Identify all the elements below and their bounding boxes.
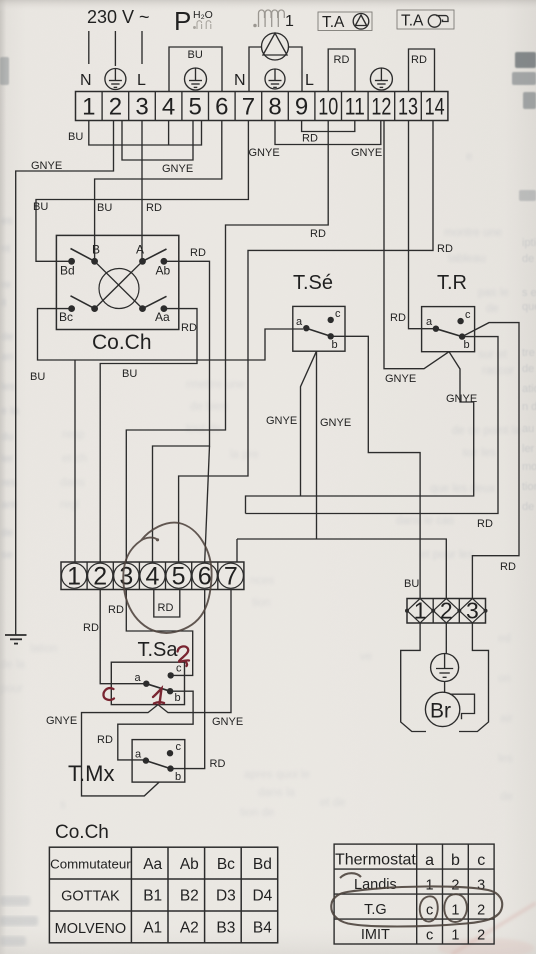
wire BU Co.Ch Aa to strip X2 terminal 2 (100, 309, 197, 562)
terminal strip X1 terminals 1-14 (76, 92, 448, 121)
thermostat T.Se (293, 306, 345, 351)
wire 230V L down to terminal 3 (141, 31, 143, 64)
wire GNYE terminal 12 to T.R case leg (384, 121, 449, 369)
earth symbol above terminal 2 (105, 69, 126, 90)
value label GNYE (terminal 7 wire) (249, 147, 280, 159)
value label RD (T.Sa b to T.Mx a) (97, 734, 113, 746)
component label T.Mx (68, 761, 114, 786)
wire GNYE T.Se case right leg to strip X2 terminal 7 and strip X3 terminal 2 (237, 351, 446, 598)
wire earth symbol to burner Br (444, 682, 446, 693)
wire RD T.Sa b to T.Mx a (118, 691, 193, 760)
wire 230V N down to terminal 1 (88, 31, 90, 64)
value label RD (terminal 2 wire) (83, 622, 99, 634)
wire strip X3 terminal 3 to burner housing right (459, 623, 489, 732)
value label RD (T.R b wire lower) (500, 561, 516, 573)
wire RD terminal 10 to strip X2 terminal 3 (126, 121, 328, 563)
commutator Co.Ch (56, 235, 178, 329)
table title Co.Ch (55, 822, 109, 843)
value label GNYE (left leg) (46, 715, 77, 727)
earth symbol of burner (431, 654, 459, 682)
annotation handwritten red 2 near T.Sa (178, 646, 190, 666)
wire RD loop terminal 9 to terminal 11 (302, 121, 355, 132)
radiator icon with 1 (heating circuit) (254, 10, 284, 27)
wire RD strip X2 terminal 6 to T.Mx b (173, 590, 204, 769)
component label T.Se (293, 272, 333, 294)
wire BU T.Se b to strip X3 terminal 1 (331, 336, 420, 598)
wire GNYE T.Sa case to T.Mx case (left leg) (82, 705, 160, 796)
pump P1 (circle with triangle) between terminals 7 and 9 (249, 33, 302, 92)
thermostat T.Sa (111, 662, 184, 704)
value label BU inside P bracket (188, 49, 203, 61)
value label RD (T.A 1 loop) (334, 54, 350, 66)
node L (mains live) (137, 72, 146, 89)
value label BU (Aa wire) (122, 368, 137, 380)
wire RD terminal 3 to Co.Ch A (141, 121, 143, 259)
wire RD Co.Ch Ab to strip X2 terminals 4 and 6 (153, 261, 210, 562)
wire bracket RD over terminals 10-11 (328, 49, 355, 92)
value label GNYE (T.R right leg) (446, 393, 477, 405)
value label RD (wire to A) (146, 202, 162, 214)
value label RD (terminal 3 wire) (108, 604, 124, 616)
value label BU (loop 1-4) (68, 131, 83, 143)
value label GNYE (terminal 12 wire) (385, 373, 416, 385)
value label RD (loop 9-11) (302, 133, 318, 145)
value label GNYE (T.Se left leg) (266, 415, 297, 427)
annotation handwritten red 1 inside T.Sa (153, 689, 164, 705)
annotation pen ellipse around Thermostat table row T.G (331, 873, 502, 926)
thermostat T.R (422, 307, 475, 352)
value label RD (terminal 10 wire) (310, 228, 326, 240)
node N (pump neutral) (234, 72, 246, 89)
node L (pump live) (305, 72, 314, 89)
wire bracket P-H2O over terminals 4-6, net BU (169, 47, 222, 92)
wire RD T.R b to strip X2 terminal 7 (246, 337, 499, 514)
wire GNYE T.Se case left leg to T.R case (246, 351, 474, 513)
wire GNYE terminal 2 to ground electrode (16, 121, 114, 630)
burner Br (425, 692, 474, 726)
thermostat T.A 2 (with burner symbol) (397, 10, 454, 30)
value label BU (Bc wire) (30, 371, 45, 383)
value label RD (terminal 13 wire) (390, 312, 406, 324)
terminal strip X3 terminals 1-3 (405, 598, 488, 624)
wire RD terminal 14 to strip X2 terminal 5 (179, 121, 433, 563)
value label RD (T.A 2 loop) (411, 54, 427, 66)
value label GNYE (loop 8-12) (351, 147, 382, 159)
value label RD (terminal 14 wire) (437, 243, 453, 255)
value label RD (Ab wire) (190, 247, 206, 259)
wire BU loop terminal 1 to terminal 5 (89, 121, 202, 146)
value label BU (T.Se b wire) (404, 578, 419, 590)
value label GNYE (loop 2-5) (162, 163, 193, 175)
value label RD (4-5 bracket) (158, 602, 174, 614)
value label GNYE (right leg) (212, 716, 243, 728)
wire GNYE loop terminal 2 to terminal 5 (122, 121, 193, 161)
annotation pen ellipse around strip X2 terminals 3-6 (123, 523, 211, 633)
thermostat T.A 1 (with pump symbol) (318, 12, 372, 31)
wire RD T.R b to strip X3 terminal 3 (462, 323, 519, 599)
radiator glyph small (faint) (194, 21, 211, 29)
earth symbol above terminal 8 (265, 69, 285, 89)
wire 230V earth down to terminal 2 (114, 31, 116, 66)
wire BU Co.Ch Bc to strip X2 terminal 1 and T.Se a (38, 309, 304, 562)
annotation pen circle around T.G value 1 (444, 894, 467, 922)
label 1 (circuit number) (285, 13, 294, 30)
table Co.Ch (commutator cross-reference) (49, 847, 277, 943)
wire RD strip X2 terminal 2 to T.Sa a (100, 590, 143, 684)
wire strip X3 terminal 1 to burner housing left (401, 623, 426, 732)
earth symbol above terminal 12 (370, 68, 392, 90)
wire RD strip X2 terminal 3 to T.Sa c (126, 590, 192, 676)
value label GNYE (ground wire) (31, 160, 62, 172)
annotation pen circle around T.G value c (420, 896, 438, 921)
wire RD terminal 13 to T.R a (409, 121, 434, 329)
value label BU (wire to B) (97, 202, 112, 214)
node N (mains neutral) (80, 72, 92, 89)
thermostat T.Mx (132, 740, 185, 783)
wire GNYE T.Sa case to strip X2 terminal 7 (right leg) (158, 590, 231, 713)
value label RD (Aa wire corner) (181, 322, 197, 334)
terminal strip X2 terminals 1-7 (61, 562, 244, 591)
annotation handwritten red c left of T.Sa (103, 688, 114, 700)
table Thermostat (wiring cross-reference) (334, 844, 494, 944)
wire terminal 7 to Co.Ch Bd (36, 121, 248, 262)
net label 230V supply (87, 7, 150, 27)
wire bracket RD over terminals 13-14 (409, 49, 435, 92)
value label RD (terminal 6 wire) (210, 758, 226, 770)
component label T.Sa (138, 639, 179, 661)
wire BU terminal 6 to Co.Ch B (95, 121, 222, 259)
earth symbol above terminal 5 (185, 68, 207, 90)
value label BU (Bd feed) (33, 201, 48, 213)
ground (5, 629, 27, 644)
value label RD (T.R b wire upper) (477, 518, 493, 530)
component label Co.Ch (92, 331, 152, 354)
wire GNYE loop terminal 8 to terminal 12 (275, 121, 381, 145)
value label GNYE (T.Se right leg) (320, 417, 351, 429)
wire bracket RD strip X2 terminals 4-5 (154, 590, 180, 618)
component P H2O (water pressure switch) label (174, 6, 213, 36)
wire strip X3 terminal 2 to earth symbol (445, 623, 447, 654)
component label T.R (437, 272, 467, 294)
